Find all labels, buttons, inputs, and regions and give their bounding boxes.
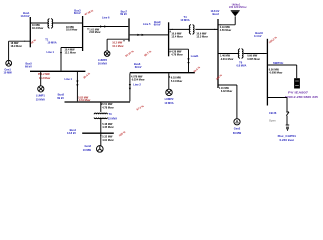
svg-text:13.8 kV: 13.8 kV bbox=[21, 14, 30, 18]
wire Bus9 to Bus6 (Load1 branch) bbox=[169, 49, 199, 72]
svg-text:69 kV: 69 kV bbox=[120, 12, 127, 16]
svg-text:0.8 MVA: 0.8 MVA bbox=[236, 63, 246, 67]
svg-text:230 423 MVAsc: 230 423 MVAsc bbox=[229, 5, 247, 9]
wire Bus9 to T4 to Bus2 bbox=[169, 29, 218, 30]
wire Bus2 to Gen2 bbox=[218, 85, 237, 119]
svg-text:Line 1: Line 1 bbox=[47, 50, 55, 54]
inverter PV1 bbox=[285, 78, 319, 99]
value label Line 6 bbox=[87, 28, 100, 34]
wire Bus5 to LUMP1 bbox=[40, 72, 42, 86]
value label LUMP3 wire bbox=[112, 40, 124, 48]
bus Bus6 bbox=[130, 62, 195, 73]
svg-text:Gen3: Gen3 bbox=[85, 144, 92, 148]
lumped load LUMP2 bbox=[164, 89, 174, 105]
svg-text:10 MVA: 10 MVA bbox=[164, 101, 173, 105]
bus Bus9 bbox=[154, 20, 169, 56]
svg-text:69 kV: 69 kV bbox=[57, 96, 64, 100]
wire T3 to Bus4 bbox=[100, 118, 102, 133]
value label Load1 branch bbox=[170, 50, 183, 56]
svg-text:12.4 Mvar: 12.4 Mvar bbox=[171, 36, 182, 39]
svg-text:10 MW: 10 MW bbox=[83, 148, 92, 152]
value label Gen1 wire bbox=[11, 42, 22, 48]
svg-text:6.18 MW: 6.18 MW bbox=[171, 77, 182, 80]
generator Gen3 bbox=[83, 144, 103, 152]
svg-text:Gen2: Gen2 bbox=[234, 127, 241, 131]
svg-text:10 MVA: 10 MVA bbox=[47, 40, 56, 44]
svg-text:Line 6: Line 6 bbox=[102, 16, 110, 20]
svg-text:60 MW: 60 MW bbox=[233, 131, 242, 135]
wire Bus10 to CB26 bbox=[268, 98, 287, 112]
value label Gen2 wire bbox=[219, 87, 232, 93]
svg-text:SWITCH: SWITCH bbox=[273, 61, 283, 65]
svg-text:4.56 Mvar: 4.56 Mvar bbox=[220, 29, 231, 32]
svg-text:69 kV: 69 kV bbox=[135, 65, 142, 69]
transformer T1 bbox=[45, 18, 56, 44]
wire Bus1 to Gen1 bbox=[9, 41, 31, 61]
wire Bus8 to T3 bbox=[100, 103, 102, 112]
svg-text:Line 5: Line 5 bbox=[143, 22, 151, 26]
value label utility wire bbox=[220, 26, 231, 32]
svg-text:10.1 Mvar: 10.1 Mvar bbox=[112, 45, 123, 48]
value label left of T6 bbox=[220, 55, 234, 61]
svg-text:10 MVA: 10 MVA bbox=[180, 18, 189, 22]
svg-text:6.02 Mvar: 6.02 Mvar bbox=[221, 90, 232, 93]
bus Bus7 bbox=[120, 10, 129, 42]
svg-text:Line 2: Line 2 bbox=[133, 83, 141, 87]
value label switch wire bbox=[269, 68, 283, 74]
svg-text:18.9 Mvar: 18.9 Mvar bbox=[11, 45, 22, 48]
svg-text:5.14 Mvar: 5.14 Mvar bbox=[171, 80, 182, 83]
breaker CB 26 (open) bbox=[269, 111, 289, 124]
svg-text:Bus2: Bus2 bbox=[213, 12, 220, 16]
utility U1 bbox=[218, 2, 247, 25]
red value label below Bus5 bbox=[38, 73, 50, 80]
svg-text:Line 1: Line 1 bbox=[65, 77, 73, 81]
svg-text:2.84 Mvar: 2.84 Mvar bbox=[89, 31, 100, 34]
svg-text:20 MVA: 20 MVA bbox=[98, 62, 107, 66]
value label left of T1 bbox=[32, 24, 43, 30]
svg-text:10 MW: 10 MW bbox=[3, 71, 12, 75]
bus Bus1 bbox=[21, 11, 31, 47]
bus Bus2 bbox=[210, 9, 219, 88]
transformer T3 bbox=[94, 112, 117, 120]
lumped load LUMP1 bbox=[36, 86, 46, 102]
capacitor CAP1 bbox=[278, 125, 297, 142]
value label right of T4 bbox=[196, 32, 207, 38]
svg-text:Bus8: Bus8 bbox=[58, 92, 65, 96]
svg-text:-0.254 Mvar: -0.254 Mvar bbox=[131, 78, 145, 81]
wire Bus1 to T1 bbox=[30, 22, 48, 23]
svg-text:-0.011 Mvar: -0.011 Mvar bbox=[220, 58, 234, 61]
svg-text:69 kV: 69 kV bbox=[74, 11, 81, 15]
wire Bus5 to Bus8 (Line) bbox=[65, 72, 79, 101]
svg-text:LUMP2: LUMP2 bbox=[165, 97, 174, 101]
bus Bus3 bbox=[74, 9, 83, 52]
svg-text:CB 26: CB 26 bbox=[269, 111, 277, 115]
svg-text:0.240 kvar: 0.240 kvar bbox=[280, 138, 295, 142]
svg-text:0.4 kV: 0.4 kV bbox=[254, 34, 262, 38]
svg-text:4.45 Mvar: 4.45 Mvar bbox=[102, 126, 113, 129]
wire Bus3 to Bus5 dogleg (Line 1) bbox=[47, 47, 83, 71]
svg-text:69 kV: 69 kV bbox=[25, 64, 32, 68]
svg-text:0.005 Mvar: 0.005 Mvar bbox=[247, 58, 260, 61]
svg-text:18.4 Mvar: 18.4 Mvar bbox=[32, 27, 43, 30]
svg-text:69 kV: 69 kV bbox=[154, 23, 161, 27]
red value label above Bus8 bbox=[78, 97, 90, 103]
svg-text:15 MVA: 15 MVA bbox=[108, 116, 117, 120]
svg-text:Rsc_CAP01: Rsc_CAP01 bbox=[278, 134, 297, 138]
svg-text:PV IEA807: PV IEA807 bbox=[288, 91, 309, 95]
svg-text:5290.2-280 0820 235: 5290.2-280 0820 235 bbox=[285, 95, 319, 99]
svg-text:P01.2 MW: P01.2 MW bbox=[38, 73, 50, 76]
value label right of T6 bbox=[247, 55, 260, 61]
value label Line 2 bbox=[131, 75, 145, 81]
wire T1 to Bus3 bbox=[52, 22, 82, 23]
svg-text:13.8 kV: 13.8 kV bbox=[67, 131, 76, 135]
generator Gen1 bbox=[3, 60, 12, 74]
wire Bus6 to LUMP2 bbox=[168, 73, 170, 89]
wire Line 6 bbox=[83, 16, 128, 28]
value label right of T1 bbox=[66, 26, 77, 32]
value label LUMP2 wire bbox=[169, 76, 182, 84]
svg-text:18.9 Mvar: 18.9 Mvar bbox=[66, 29, 77, 32]
bus Bus8 bbox=[57, 92, 130, 102]
wire Bus10 to inverter (SWITCH) bbox=[268, 61, 297, 78]
wire Line 2 Bus6 to Bus8 bbox=[129, 73, 142, 101]
svg-text:Load1: Load1 bbox=[191, 54, 199, 58]
svg-text:4.78 Mvar: 4.78 Mvar bbox=[102, 106, 113, 109]
generator Gen2 bbox=[233, 119, 242, 135]
transformer T4 bbox=[180, 15, 194, 35]
svg-text:LUMP1: LUMP1 bbox=[36, 94, 45, 98]
svg-text:LUMP3: LUMP3 bbox=[98, 58, 107, 62]
wire Bus2 to T6 to Bus10 bbox=[218, 53, 267, 54]
value label below Bus4 bbox=[102, 136, 113, 142]
svg-text:-0.008 Mvar: -0.008 Mvar bbox=[269, 71, 283, 74]
wire Bus4 to Gen3 bbox=[100, 134, 101, 146]
bus Bus10 bbox=[254, 31, 267, 105]
wire Line 5 bbox=[130, 22, 168, 36]
svg-text:12.1 Mvar: 12.1 Mvar bbox=[65, 51, 76, 54]
value label above Bus4 bbox=[102, 123, 113, 129]
bus Bus4 bbox=[67, 128, 114, 135]
transformer T6 bbox=[236, 48, 246, 67]
svg-text:Open: Open bbox=[269, 119, 276, 123]
lumped load LUMP3 bbox=[98, 51, 110, 66]
value label Line 1 bbox=[65, 49, 76, 55]
svg-text:4.78 Mvar: 4.78 Mvar bbox=[171, 54, 182, 57]
svg-text:4.91 Mvar: 4.91 Mvar bbox=[102, 139, 113, 142]
value label above T3 bbox=[101, 103, 114, 110]
bus Bus5 bbox=[25, 62, 85, 72]
value label left of T4 bbox=[170, 30, 183, 39]
svg-text:12.3 Mvar: 12.3 Mvar bbox=[196, 36, 207, 39]
wire LUMP3 connector from Bus7 bbox=[107, 39, 129, 51]
svg-text:15 MVA: 15 MVA bbox=[36, 97, 45, 101]
